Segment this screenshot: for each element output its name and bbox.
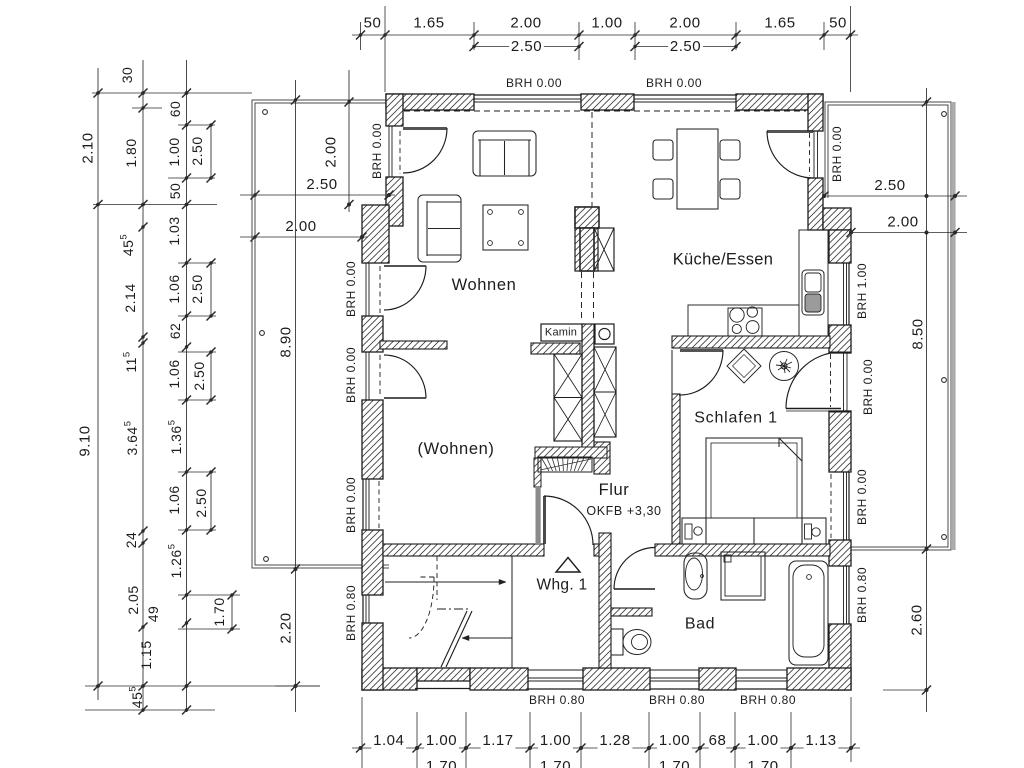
svg-text:BRH 0.80: BRH 0.80 (344, 585, 358, 641)
svg-text:1.00: 1.00 (659, 732, 690, 749)
svg-text:BRH 0.80: BRH 0.80 (529, 693, 585, 707)
svg-text:2.50: 2.50 (874, 177, 905, 194)
svg-text:68: 68 (709, 732, 727, 749)
svg-text:9.10: 9.10 (77, 425, 94, 456)
svg-text:1.00: 1.00 (426, 732, 457, 749)
svg-text:2.00: 2.00 (285, 218, 316, 235)
svg-text:BRH 0.00: BRH 0.00 (861, 359, 875, 415)
svg-text:BRH 0.00: BRH 0.00 (646, 76, 702, 90)
svg-text:2.50: 2.50 (191, 361, 207, 390)
svg-text:2.00: 2.00 (887, 214, 918, 231)
svg-text:2.00: 2.00 (669, 15, 700, 32)
svg-text:Wohnen: Wohnen (452, 276, 517, 294)
svg-text:1.17: 1.17 (482, 732, 513, 749)
svg-text:OKFB +3,30: OKFB +3,30 (586, 504, 661, 518)
svg-text:60: 60 (167, 101, 183, 118)
svg-text:1.13: 1.13 (805, 732, 836, 749)
svg-text:1.80: 1.80 (123, 138, 139, 167)
svg-text:1.70: 1.70 (747, 758, 778, 768)
svg-text:1.06: 1.06 (166, 485, 182, 514)
svg-text:62: 62 (167, 323, 183, 340)
svg-text:2.50: 2.50 (193, 488, 209, 517)
svg-text:1.65: 1.65 (764, 15, 795, 32)
svg-text:1.00: 1.00 (591, 15, 622, 32)
svg-text:1.70: 1.70 (540, 758, 571, 768)
svg-text:1.65: 1.65 (413, 15, 444, 32)
svg-text:2.60: 2.60 (909, 604, 926, 635)
svg-text:Flur: Flur (599, 481, 630, 499)
svg-text:BRH 0.80: BRH 0.80 (740, 693, 796, 707)
svg-text:1.70: 1.70 (659, 758, 690, 768)
svg-text:Schlafen 1: Schlafen 1 (694, 410, 778, 427)
svg-text:2.20: 2.20 (278, 612, 295, 643)
svg-text:BRH 0.00: BRH 0.00 (830, 126, 844, 182)
svg-text:2.50: 2.50 (511, 38, 542, 55)
svg-text:Bad: Bad (685, 616, 715, 633)
svg-text:8.90: 8.90 (278, 326, 295, 357)
svg-text:Küche/Essen: Küche/Essen (673, 251, 774, 269)
svg-text:8.50: 8.50 (910, 318, 927, 349)
svg-text:1.03: 1.03 (166, 216, 182, 245)
svg-text:BRH 0.00: BRH 0.00 (506, 76, 562, 90)
svg-text:2.10: 2.10 (80, 132, 97, 163)
svg-text:50: 50 (167, 183, 183, 200)
svg-text:1.06: 1.06 (166, 274, 182, 303)
svg-text:1.00: 1.00 (540, 732, 571, 749)
svg-text:BRH 0.80: BRH 0.80 (855, 567, 869, 623)
svg-text:50: 50 (829, 15, 847, 32)
svg-text:(Wohnen): (Wohnen) (418, 440, 495, 458)
svg-text:49: 49 (145, 606, 161, 623)
svg-text:1.70: 1.70 (211, 597, 227, 626)
svg-text:2.50: 2.50 (670, 38, 701, 55)
svg-text:50: 50 (364, 15, 382, 32)
svg-text:1.00: 1.00 (747, 732, 778, 749)
svg-text:1.04: 1.04 (373, 732, 404, 749)
svg-text:30: 30 (119, 67, 135, 84)
svg-text:2.14: 2.14 (122, 283, 138, 312)
svg-text:2.00: 2.00 (510, 15, 541, 32)
svg-text:1.06: 1.06 (166, 359, 182, 388)
svg-text:BRH 0.00: BRH 0.00 (344, 477, 358, 533)
svg-text:BRH 0.00: BRH 0.00 (370, 123, 384, 179)
svg-text:2.50: 2.50 (306, 176, 337, 193)
svg-text:2.05: 2.05 (125, 585, 141, 614)
svg-text:1.15: 1.15 (138, 640, 154, 669)
svg-text:BRH 0.00: BRH 0.00 (855, 469, 869, 525)
svg-text:Kamin: Kamin (545, 327, 577, 339)
svg-text:BRH 1.00: BRH 1.00 (855, 263, 869, 319)
svg-text:1.28: 1.28 (599, 732, 630, 749)
svg-text:1.70: 1.70 (426, 758, 457, 768)
svg-text:Whg. 1: Whg. 1 (537, 577, 588, 594)
svg-text:2.00: 2.00 (323, 136, 340, 167)
svg-text:24: 24 (123, 532, 139, 549)
svg-text:2.50: 2.50 (189, 136, 205, 165)
svg-text:BRH 0.00: BRH 0.00 (344, 261, 358, 317)
svg-text:1.00: 1.00 (166, 137, 182, 166)
svg-text:BRH 0.80: BRH 0.80 (649, 693, 705, 707)
svg-text:2.50: 2.50 (189, 274, 205, 303)
svg-text:BRH 0.00: BRH 0.00 (344, 347, 358, 403)
